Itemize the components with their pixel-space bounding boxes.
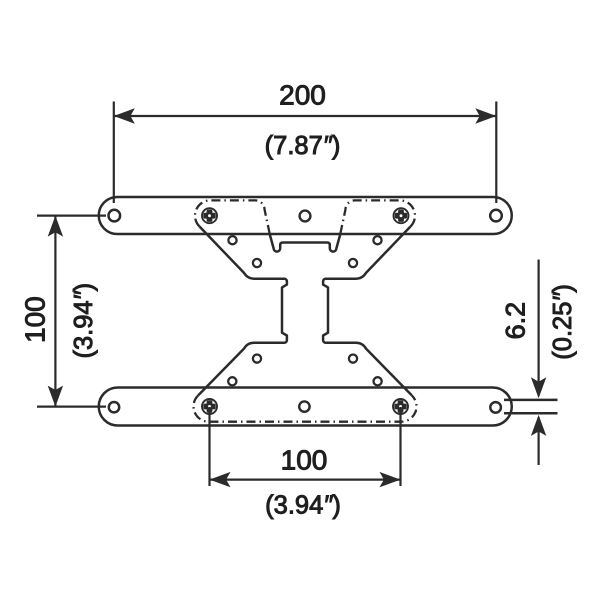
top bar plate xyxy=(99,197,512,234)
hole top bar left end xyxy=(109,210,121,222)
phillips screw top-left xyxy=(202,208,217,223)
dimension line 6.2 lower tail xyxy=(537,417,539,465)
bottom bar plate xyxy=(99,388,512,426)
thickness line 6.2 upper xyxy=(504,399,558,402)
svg-text:100: 100 xyxy=(281,445,328,476)
bracket hole upper-left outer xyxy=(228,236,236,244)
dimension line 6.2 upper tail xyxy=(537,260,539,397)
phantom outline top-left (dash-dot) xyxy=(195,200,270,234)
thickness line 6.2 lower xyxy=(504,412,558,415)
hole bottom bar center xyxy=(299,401,309,411)
extension line 100-bottom left xyxy=(208,407,210,486)
arrowhead 100-left top xyxy=(48,216,63,237)
phillips screw bottom-left xyxy=(202,399,217,414)
arrowhead 200 left xyxy=(114,108,135,123)
dimension line 100 bottom xyxy=(210,479,401,481)
svg-text:100: 100 xyxy=(19,296,50,343)
phantom outline bottom (dash-dot) xyxy=(194,395,417,421)
extension line 200 left xyxy=(113,102,115,204)
bracket top hook slots and plateau xyxy=(270,235,340,252)
svg-text:(7.87″): (7.87″) xyxy=(265,132,341,160)
extension line 100-left top xyxy=(37,215,106,217)
adapter bracket left outline xyxy=(198,227,287,396)
dimension line 100 left xyxy=(54,216,56,407)
svg-text:6.2: 6.2 xyxy=(501,302,531,340)
svg-text:(3.94″): (3.94″) xyxy=(265,492,341,520)
hole top bar center xyxy=(300,211,311,222)
dimension line 200 xyxy=(114,115,497,117)
svg-text:(0.25″): (0.25″) xyxy=(549,284,577,360)
bracket hole lower-right inner xyxy=(349,355,357,363)
bracket hole lower-left inner xyxy=(253,355,261,363)
phillips screw top-right xyxy=(394,208,409,223)
arrowhead 6.2 top (points down) xyxy=(531,377,546,398)
phantom outline top-right (dash-dot) xyxy=(340,200,415,234)
bracket hole upper-right inner xyxy=(349,259,357,267)
hole top bar right end xyxy=(490,210,502,222)
svg-text:200: 200 xyxy=(279,80,326,111)
arrowhead 100-bottom right xyxy=(380,472,401,487)
svg-text:(3.94″): (3.94″) xyxy=(70,283,98,359)
arrowhead 100-bottom left xyxy=(210,472,231,487)
arrowhead 6.2 bottom (points up) xyxy=(531,415,546,436)
extension line 100-left bottom xyxy=(37,406,106,408)
bracket hole lower-right outer xyxy=(374,377,382,385)
bracket hole upper-right outer xyxy=(373,236,381,244)
phillips screw bottom-right xyxy=(393,399,408,414)
extension line 200 right xyxy=(495,102,497,204)
arrowhead 100-left bottom xyxy=(48,386,63,407)
arrowhead 200 right xyxy=(475,108,496,123)
bracket hole lower-left outer xyxy=(228,377,236,385)
extension line 100-bottom right xyxy=(399,407,401,486)
bracket hole upper-left inner xyxy=(253,259,261,267)
hole bottom bar left end xyxy=(109,402,119,412)
hole bottom bar right end xyxy=(490,402,501,413)
adapter bracket right outline xyxy=(323,227,412,396)
